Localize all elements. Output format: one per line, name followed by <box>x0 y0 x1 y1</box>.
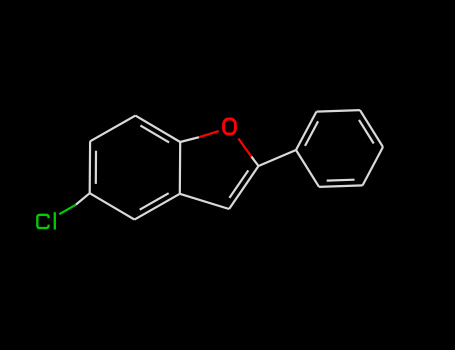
phenyl ring double bond inner line C1p=C2p <box>305 121 318 146</box>
furan bond O-C2 white half <box>251 157 258 166</box>
benzene ring double bond inner line C5=C6 <box>95 151 97 184</box>
phenyl ring bond C6p-C1p <box>296 150 319 187</box>
benzene ring bond C7-C6 <box>90 116 135 142</box>
chlorine bond C5-Cl white half <box>76 193 90 204</box>
phenyl ring bond C4p-C5p <box>363 147 383 185</box>
furan bond C3-C3a <box>180 194 229 209</box>
phenyl ring bond C2p-C3p <box>316 110 359 112</box>
furan bond C7a-O white half <box>180 137 199 142</box>
phenyl ring double bond inner line C5p=C6p <box>327 179 355 182</box>
benzene ring bond C3a-C7a ring fusion <box>179 142 182 194</box>
phenyl ring bond C3p-C4p <box>360 110 383 147</box>
benzene ring double bond inner line C3a=C4 <box>140 193 169 210</box>
furan bond O-C2 red half near oxygen <box>238 139 251 157</box>
benzene ring bond C6-C5 <box>89 141 92 193</box>
furan bond C7a-O red half near oxygen <box>199 131 219 137</box>
benzene ring double bond inner line C7=C7a <box>140 126 169 143</box>
phenyl ring bond C1p-C2p <box>296 112 316 150</box>
benzene ring bond C5-C4 <box>90 193 135 219</box>
phenyl ring double bond inner line C3p=C4p <box>359 120 374 144</box>
benzene ring bond C7a-C7 <box>135 116 180 142</box>
phenyl ring bond C5p-C6p <box>319 185 362 187</box>
furan double bond inner line C2=C3 <box>229 170 248 198</box>
chlorine atom label Cl <box>37 212 55 229</box>
benzene ring bond C4-C3a <box>135 194 180 220</box>
chlorine bond C5-Cl green half near Cl <box>59 205 76 215</box>
oxygen atom label O <box>224 119 236 134</box>
furan bond C2-C3 <box>229 166 258 209</box>
bond C2-C1p to phenyl <box>259 150 297 166</box>
